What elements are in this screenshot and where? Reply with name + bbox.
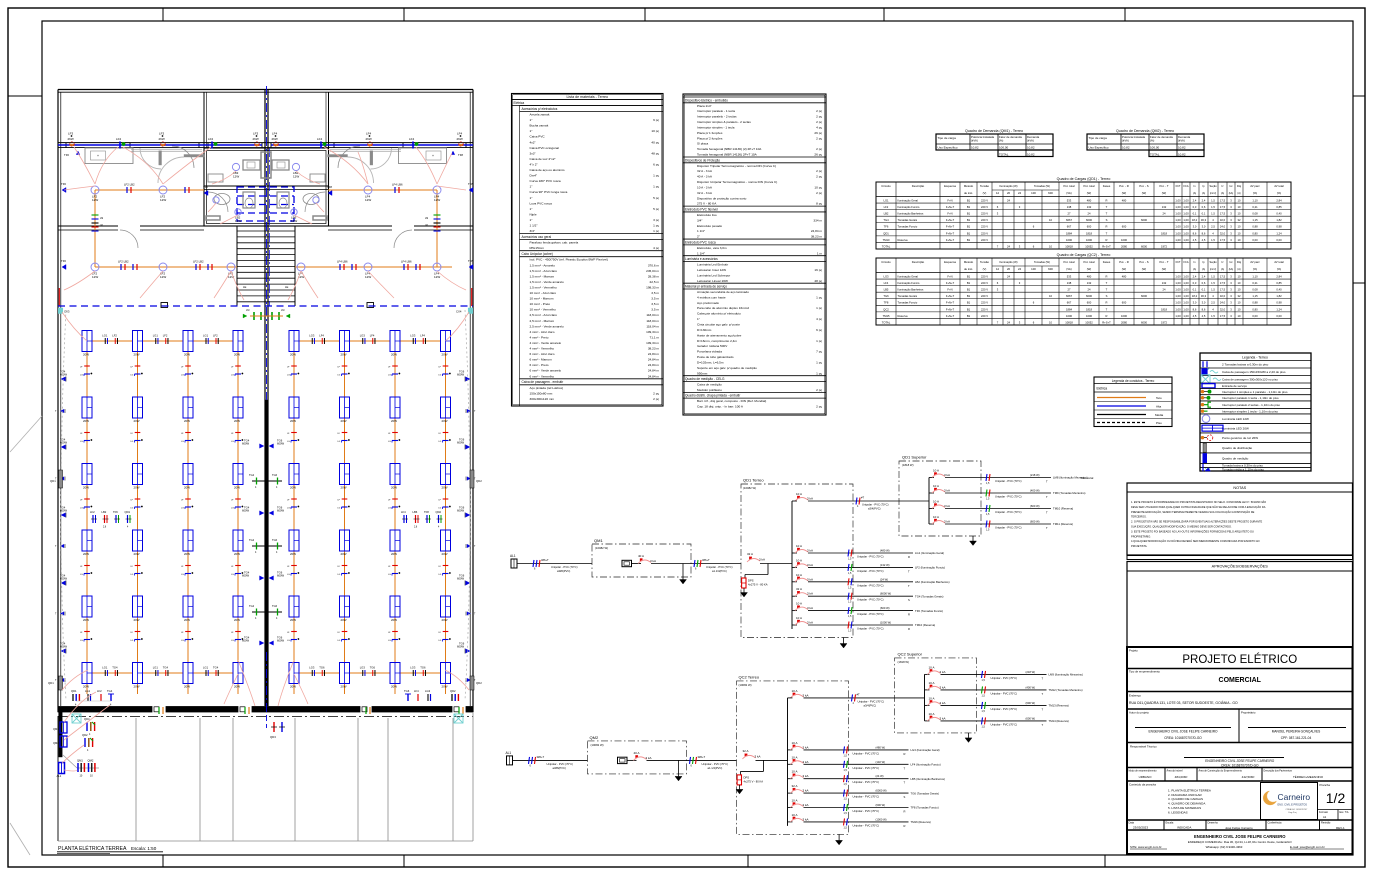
svg-text:1,24: 1,24 <box>1276 231 1282 235</box>
svg-text:LF4: LF4 <box>457 132 463 136</box>
svg-text:26W: 26W <box>366 137 372 141</box>
svg-text:(kA): (kA) <box>1229 192 1234 195</box>
svg-text:Pot. - R: Pot. - R <box>1119 184 1128 188</box>
fluorescent luminaire 20W col1 row3 <box>82 464 92 490</box>
svg-text:20W: 20W <box>83 353 89 357</box>
svg-text:1,00: 1,00 <box>1183 212 1189 216</box>
demand table QM1 <box>936 129 1053 157</box>
legend row: Interruptor simples 1 tecla - 1,10m do piso <box>1200 408 1311 413</box>
svg-text:LF4: LF4 <box>319 334 324 338</box>
svg-text:Unipolar - PVC (70°C): Unipolar - PVC (70°C) <box>853 795 880 799</box>
svg-text:QD1: QD1 <box>48 681 54 685</box>
svg-text:3,5 m: 3,5 m <box>651 302 659 306</box>
svg-text:Unipolar - PVC (70°C): Unipolar - PVC (70°C) <box>991 691 1018 695</box>
svg-text:1,00: 1,00 <box>1183 198 1189 202</box>
svg-text:48 pç: 48 pç <box>651 151 659 155</box>
wall under upper rooms with openings <box>58 226 473 230</box>
svg-text:3 kA: 3 kA <box>807 549 813 553</box>
svg-text:20W: 20W <box>341 353 347 357</box>
svg-text:17,5: 17,5 <box>1220 212 1226 216</box>
svg-text:1000: 1000 <box>1086 238 1092 242</box>
svg-text:LG: LG <box>388 640 391 642</box>
svg-text:3 kA: 3 kA <box>803 803 809 807</box>
central services block walls <box>204 148 329 226</box>
svg-text:Unipolar - PVC (70°C): Unipolar - PVC (70°C) <box>853 766 880 770</box>
svg-text:3 kA: 3 kA <box>944 473 950 477</box>
svg-text:B1: B1 <box>967 314 971 318</box>
svg-text:Unipolar - PVC (70°C): Unipolar - PVC (70°C) <box>702 762 729 766</box>
svg-text:10,82: 10,82 <box>1178 146 1186 150</box>
svg-text:D=130mm: D=130mm <box>697 328 712 332</box>
svg-text:2,5 mm² - Marrom: 2,5 mm² - Marrom <box>530 319 555 323</box>
svg-text:Unipolar - PVC (70°C): Unipolar - PVC (70°C) <box>857 627 884 631</box>
svg-text:0,6: 0,6 <box>1202 281 1206 285</box>
svg-text:LG3: LG3 <box>360 666 366 670</box>
svg-text:(VA): (VA) <box>1066 267 1071 271</box>
board ground <box>840 638 847 649</box>
mezzanine edge jamb boxes <box>161 303 374 308</box>
legend row: 2 Tomadas baixas a 0,30m do piso <box>1200 361 1311 371</box>
meter box QM2 dashed <box>588 735 687 774</box>
svg-text:3,0: 3,0 <box>1193 301 1197 305</box>
svg-text:(600 W): (600 W) <box>1030 504 1040 508</box>
svg-text:600: 600 <box>1048 267 1053 271</box>
svg-text:20W: 20W <box>134 685 140 689</box>
svg-text:TG4: TG4 <box>883 218 889 222</box>
svg-text:600W: 600W <box>457 577 464 581</box>
main breaker 40A QM1 <box>632 554 742 564</box>
svg-text:2080: 2080 <box>1121 244 1127 248</box>
svg-text:Disjuntor Unipolar Termomagnét: Disjuntor Unipolar Termomagnético - norm… <box>697 180 777 184</box>
svg-text:LF2 LB2: LF2 LB2 <box>118 260 129 264</box>
AL1 feeder box <box>57 763 65 779</box>
svg-text:20W: 20W <box>442 618 448 622</box>
svg-text:ENDEREÇO COMERCIAL: Rua 30, Qd: ENDEREÇO COMERCIAL: Rua 30, Qd.34, Lt-18… <box>1188 840 1293 844</box>
svg-text:LG3: LG3 <box>410 334 416 338</box>
svg-text:2 pç: 2 pç <box>816 169 822 173</box>
svg-text:10,82: 10,82 <box>1027 152 1035 156</box>
svg-text:138: 138 <box>1067 281 1072 285</box>
svg-text:3#6+T: 3#6+T <box>541 558 549 562</box>
svg-text:1,00: 1,00 <box>1183 314 1189 318</box>
svg-text:Reserva: Reserva <box>898 314 909 318</box>
svg-text:Pot. total: Pot. total <box>1083 260 1094 264</box>
svg-text:24,84 m: 24,84 m <box>648 352 660 356</box>
svg-text:(W): (W) <box>1087 191 1092 195</box>
svg-text:442,50M²: 442,50M² <box>1242 775 1255 779</box>
material list table: Dispositivo Elétrico - embutido <box>683 94 826 415</box>
svg-text:QD2: QD2 <box>476 479 482 483</box>
svg-text:28,38 m: 28,38 m <box>648 274 660 278</box>
svg-text:LM: LM <box>246 309 249 312</box>
svg-text:Endereço: Endereço <box>1129 694 1141 698</box>
svg-text:B1: B1 <box>967 231 971 235</box>
svg-text:B1: B1 <box>967 288 971 292</box>
svg-text:150x150x80 mm: 150x150x80 mm <box>530 391 553 395</box>
svg-text:0,08: 0,08 <box>1252 212 1258 216</box>
svg-text:LF4: LF4 <box>409 137 415 141</box>
svg-text:600W: 600W <box>60 441 67 445</box>
svg-text:17,5: 17,5 <box>1220 238 1226 242</box>
svg-text:LG: LG <box>439 574 442 576</box>
svg-text:10 mm² - Vermelho: 10 mm² - Vermelho <box>530 308 557 312</box>
svg-text:26W: 26W <box>68 137 74 141</box>
svg-text:Tomadas (W): Tomadas (W) <box>1034 184 1050 188</box>
hall mid-column conductor ticks <box>80 366 92 377</box>
svg-text:23/05/2023: 23/05/2023 <box>1133 826 1148 830</box>
svg-text:LG: LG <box>181 375 184 377</box>
svg-text:Fases: Fases <box>1103 260 1111 264</box>
svg-text:220 V: 220 V <box>981 281 988 285</box>
svg-text:600W: 600W <box>242 639 249 643</box>
svg-text:LG: LG <box>131 574 134 576</box>
svg-text:2080: 2080 <box>1121 320 1127 324</box>
svg-text:8 pç: 8 pç <box>816 202 822 206</box>
svg-text:1,82: 1,82 <box>1276 294 1282 298</box>
svg-text:1 1/4": 1 1/4" <box>697 229 705 233</box>
svg-text:100,00: 100,00 <box>999 146 1009 150</box>
svg-text:533: 533 <box>1067 198 1072 202</box>
svg-text:600W: 600W <box>242 442 249 446</box>
svg-text:LF2: LF2 <box>884 205 889 209</box>
svg-text:Desenho: Desenho <box>1208 821 1219 825</box>
svg-text:Caixa PVC octogonal: Caixa PVC octogonal <box>530 146 560 150</box>
svg-text:Data: Data <box>1129 821 1135 825</box>
svg-text:URBANO: URBANO <box>1139 775 1153 779</box>
svg-text:3 kA: 3 kA <box>646 756 652 760</box>
svg-text:12W: 12W <box>434 198 440 202</box>
svg-text:APROVAÇÕES/OBSERVAÇÕES: APROVAÇÕES/OBSERVAÇÕES <box>1212 564 1269 569</box>
svg-text:1,00: 1,00 <box>1175 198 1181 202</box>
svg-text:1818: 1818 <box>1161 231 1167 235</box>
svg-text:1 m: 1 m <box>817 251 823 255</box>
svg-text:4 pç: 4 pç <box>653 246 659 250</box>
svg-text:(VA): (VA) <box>1066 191 1071 195</box>
wall TF receptacles upper rooms <box>61 182 66 193</box>
svg-text:1,00: 1,00 <box>1183 238 1189 242</box>
svg-text:1": 1" <box>697 317 700 321</box>
fluorescent luminaire 20W col1 row6 <box>82 663 92 689</box>
svg-text:R: R <box>1106 238 1108 242</box>
svg-text:1000: 1000 <box>1121 314 1127 318</box>
svg-text:17,5: 17,5 <box>1220 205 1226 209</box>
svg-text:Iluminação (W): Iluminação (W) <box>999 260 1017 264</box>
board main breaker 32A <box>743 749 788 761</box>
svg-text:Interruptor paralelo - 2 tecla: Interruptor paralelo - 2 teclas <box>697 115 737 119</box>
svg-text:1,00: 1,00 <box>1183 274 1189 278</box>
fluorescent luminaire 20W col6 row1 <box>340 331 350 357</box>
svg-text:(kA): (kA) <box>1229 268 1234 271</box>
svg-text:Método: Método <box>964 184 974 188</box>
svg-text:LP: LP <box>100 225 103 227</box>
svg-text:0,6: 0,6 <box>1202 205 1206 209</box>
svg-text:3 kA: 3 kA <box>803 789 809 793</box>
svg-text:245,04 m: 245,04 m <box>646 269 659 273</box>
svg-text:32,0: 32,0 <box>1220 218 1226 222</box>
svg-text:220 V: 220 V <box>981 274 988 278</box>
branch breaker circuit TF6 <box>792 602 943 619</box>
svg-text:1000: 1000 <box>1121 238 1127 242</box>
svg-text:Pot. - T: Pot. - T <box>1159 260 1168 264</box>
svg-text:R: R <box>904 824 906 828</box>
svg-text:600W: 600W <box>60 577 67 581</box>
svg-text:Quadro de Cargas (QC2) - Terre: Quadro de Cargas (QC2) - Terreo <box>1057 253 1111 257</box>
svg-text:Iluminação Geral: Iluminação Geral <box>898 274 919 278</box>
svg-text:10: 10 <box>1049 218 1052 222</box>
junction box 300x300 cyan left <box>72 714 81 723</box>
svg-text:Material p/ entrada de serviço: Material p/ entrada de serviço <box>685 285 727 289</box>
svg-text:LF2: LF2 <box>208 137 214 141</box>
window gray band right <box>330 149 401 151</box>
svg-text:600W: 600W <box>277 442 284 446</box>
svg-text:24,0: 24,0 <box>1220 301 1226 305</box>
svg-text:24: 24 <box>1088 288 1091 292</box>
svg-text:4x2": 4x2" <box>530 140 536 144</box>
svg-text:1,10: 1,10 <box>1252 274 1258 278</box>
fluorescent luminaire 20W col8 row6 <box>441 663 451 689</box>
svg-text:a3#6(PVC): a3#6(PVC) <box>553 766 566 770</box>
svg-text:5 pç: 5 pç <box>653 196 659 200</box>
svg-text:LG: LG <box>80 375 83 377</box>
svg-text:(10082 W): (10082 W) <box>595 546 608 550</box>
svg-text:26 pç: 26 pç <box>814 153 822 157</box>
svg-text:300x300x120 mm: 300x300x120 mm <box>530 397 555 401</box>
svg-text:Unipolar - PVC (70°C): Unipolar - PVC (70°C) <box>991 722 1018 726</box>
svg-text:1818: 1818 <box>1086 307 1092 311</box>
fluorescent luminaire 20W col5 row6 <box>289 663 299 689</box>
svg-text:118,04 m: 118,04 m <box>646 313 659 317</box>
svg-text:10 mm² - Preto: 10 mm² - Preto <box>530 302 551 306</box>
svg-text:(mm²): (mm²) <box>1210 192 1217 195</box>
svg-text:1": 1" <box>530 129 533 133</box>
svg-text:Prancha: Prancha <box>1320 783 1331 787</box>
svg-text:1": 1" <box>530 196 533 200</box>
svg-text:71,1 m: 71,1 m <box>650 335 660 339</box>
svg-text:1000: 1000 <box>1086 314 1092 318</box>
svg-text:1,00: 1,00 <box>1175 288 1181 292</box>
svg-text:20W: 20W <box>341 552 347 556</box>
svg-text:8,6: 8,6 <box>1193 231 1197 235</box>
svg-text:1,00: 1,00 <box>1175 238 1181 242</box>
svg-text:(1818 W): (1818 W) <box>898 660 910 664</box>
svg-text:TM14 (Reserva): TM14 (Reserva) <box>1049 719 1069 723</box>
upper board feed wire <box>895 697 925 699</box>
svg-text:132: 132 <box>1087 281 1092 285</box>
svg-text:24: 24 <box>1007 244 1010 248</box>
svg-text:LG: LG <box>80 640 83 642</box>
svg-text:2 pç: 2 pç <box>816 120 822 124</box>
svg-text:Tomadas Gerais: Tomadas Gerais <box>898 294 918 298</box>
svg-text:QD2: QD2 <box>82 733 88 737</box>
svg-text:0,00: 0,00 <box>1276 238 1282 242</box>
svg-text:LF2: LF2 <box>97 689 102 693</box>
svg-text:(218 W): (218 W) <box>1026 670 1036 674</box>
svg-text:1 pç: 1 pç <box>816 306 822 310</box>
svg-text:24,84 m: 24,84 m <box>648 369 660 373</box>
svg-text:Área de Construção do Empreend: Área de Construção do Empreendimento <box>1199 770 1243 773</box>
svg-text:Eletroduto PVC rosca: Eletroduto PVC rosca <box>685 240 716 244</box>
svg-text:TM15: TM15 <box>883 314 890 318</box>
svg-text:LG: LG <box>287 441 290 443</box>
fluorescent luminaire 20W col2 row5 <box>133 596 143 622</box>
svg-text:LG: LG <box>181 441 184 443</box>
notes box <box>1127 483 1353 555</box>
upper-right room door and column <box>328 148 392 183</box>
svg-text:600W: 600W <box>457 441 464 445</box>
svg-text:8,6: 8,6 <box>1202 307 1206 311</box>
svg-text:Interruptor simples - 1 tecla: Interruptor simples - 1 tecla <box>697 125 735 129</box>
svg-text:Luminária LED 12W: Luminária LED 12W <box>1222 417 1249 421</box>
svg-text:Esc. T/A: Esc. T/A <box>1340 811 1349 814</box>
svg-text:1 pç: 1 pç <box>653 174 659 178</box>
svg-text:32: 32 <box>1238 294 1241 298</box>
svg-text:1,5: 1,5 <box>1211 288 1215 292</box>
svg-text:1,5: 1,5 <box>1211 314 1215 318</box>
branch breaker circuit LF4 <box>788 755 941 772</box>
svg-text:TG4: TG4 <box>249 538 255 542</box>
plan title label <box>57 845 163 854</box>
svg-text:B1: B1 <box>967 218 971 222</box>
entry QD2 cluster below wall <box>82 733 93 752</box>
svg-text:Quadro de medição: Quadro de medição <box>1222 456 1249 460</box>
svg-text:LG1 (Iluminação Geral): LG1 (Iluminação Geral) <box>915 551 944 555</box>
title block sheet content row <box>1127 783 1353 821</box>
svg-text:3 kA: 3 kA <box>803 774 809 778</box>
svg-text:TM16 (Reserva): TM16 (Reserva) <box>911 820 931 824</box>
svg-text:10: 10 <box>1238 288 1241 292</box>
svg-text:12: 12 <box>996 267 1000 271</box>
svg-text:Disj: Disj <box>1237 185 1242 188</box>
QD1 wall cabinet symbol <box>50 470 63 488</box>
svg-text:3x3": 3x3" <box>530 151 536 155</box>
svg-text:Disjuntor Tripolar Termomagnét: Disjuntor Tripolar Termomagnético - norm… <box>697 164 776 168</box>
svg-text:20W: 20W <box>234 618 240 622</box>
svg-text:1818: 1818 <box>1161 307 1167 311</box>
svg-text:0,85: 0,85 <box>1276 205 1282 209</box>
svg-text:INDICADA: INDICADA <box>1177 826 1191 830</box>
svg-text:Alta: Alta <box>1156 405 1162 409</box>
svg-text:20W: 20W <box>83 618 89 622</box>
demand table QM2 <box>1087 129 1204 157</box>
svg-text:Tomada média a 1,10m do piso: Tomada média a 1,10m do piso <box>1222 468 1264 472</box>
svg-text:533: 533 <box>1067 274 1072 278</box>
svg-text:600W: 600W <box>277 509 284 513</box>
svg-text:12W: 12W <box>365 198 371 202</box>
svg-text:Niple: Niple <box>530 212 537 216</box>
svg-text:220 V: 220 V <box>981 198 988 202</box>
svg-text:10: 10 <box>1049 294 1052 298</box>
svg-text:Teto: Teto <box>1156 396 1162 400</box>
svg-text:600: 600 <box>1087 225 1092 229</box>
svg-text:LG3: LG3 <box>425 689 431 693</box>
svg-text:LG: LG <box>439 508 442 510</box>
svg-text:10: 10 <box>1238 307 1241 311</box>
svg-text:Tomadas Funcio: Tomadas Funcio <box>898 301 918 305</box>
svg-text:LG: LG <box>231 441 234 443</box>
svg-text:Dispositivo de proteção contra: Dispositivo de proteção contra surto <box>697 196 747 200</box>
svg-text:LB2: LB2 <box>884 212 889 216</box>
svg-text:32: 32 <box>1238 218 1241 222</box>
svg-text:Esquema: Esquema <box>944 184 956 188</box>
svg-text:1,00: 1,00 <box>1183 231 1189 235</box>
svg-text:10 A: 10 A <box>796 544 802 548</box>
svg-text:Caixa de passagem 150x150x80 a: Caixa de passagem 150x150x80 a 2,20 do p… <box>1222 370 1286 374</box>
svg-text:132: 132 <box>1162 281 1167 285</box>
fluorescent luminaire 20W col2 row6 <box>133 663 143 689</box>
fluorescent luminaire 20W col2 row1 <box>133 331 143 357</box>
svg-text:1,00: 1,00 <box>1175 231 1181 235</box>
svg-text:Bucha zamak: Bucha zamak <box>530 124 549 128</box>
svg-text:Esquema: Esquema <box>944 260 956 264</box>
svg-text:600W: 600W <box>457 509 464 513</box>
svg-text:20W: 20W <box>391 685 397 689</box>
svg-text:TF8: TF8 <box>884 301 889 305</box>
svg-text:Pot. - R: Pot. - R <box>1119 260 1128 264</box>
svg-text:LF4 LB6: LF4 LB6 <box>401 260 412 264</box>
svg-text:B1: B1 <box>967 212 971 216</box>
svg-text:2": 2" <box>697 235 700 239</box>
svg-text:32,0: 32,0 <box>1220 307 1226 311</box>
svg-text:(V): (V) <box>983 267 987 271</box>
svg-text:José Felipe Carneiro: José Felipe Carneiro <box>1225 826 1253 830</box>
svg-text:TF8: TF8 <box>468 259 473 263</box>
svg-text:2,4: 2,4 <box>1202 274 1206 278</box>
svg-text:TG6: TG6 <box>420 666 426 670</box>
svg-text:LF2: LF2 <box>163 334 168 338</box>
svg-text:Descrição: Descrição <box>912 260 925 264</box>
svg-text:48 pç: 48 pç <box>814 279 822 283</box>
svg-text:(W): (W) <box>1122 267 1127 271</box>
svg-text:3 kA: 3 kA <box>944 520 950 524</box>
svg-text:20W: 20W <box>234 353 240 357</box>
svg-text:3,5 m: 3,5 m <box>651 308 659 312</box>
svg-text:Uso Específico: Uso Específico <box>938 146 958 150</box>
svg-text:667: 667 <box>1067 225 1072 229</box>
svg-text:Pot. - S: Pot. - S <box>1139 184 1148 188</box>
svg-text:S: S <box>908 598 910 602</box>
svg-text:600: 600 <box>1122 301 1127 305</box>
svg-text:TG4: TG4 <box>163 666 169 670</box>
wall below top strip <box>58 143 473 148</box>
feeder node AL1 (QM1) <box>510 554 517 568</box>
svg-text:10052: 10052 <box>1085 320 1093 324</box>
svg-text:Pot. - S: Pot. - S <box>1139 260 1148 264</box>
svg-text:17,5: 17,5 <box>1220 281 1226 285</box>
svg-text:100: 100 <box>1031 191 1036 195</box>
svg-text:10 A: 10 A <box>933 469 939 473</box>
svg-text:18,2: 18,2 <box>1192 218 1198 222</box>
svg-text:6667: 6667 <box>1066 218 1072 222</box>
svg-text:4 mm² - Preto: 4 mm² - Preto <box>530 335 549 339</box>
svg-text:Quadro de Demanda (QM2) - Terr: Quadro de Demanda (QM2) - Terreo <box>1116 129 1174 133</box>
svg-text:8,6: 8,6 <box>1202 231 1206 235</box>
hall luminaire circuit columns <box>87 341 446 694</box>
svg-text:LF4 LB6: LF4 LB6 <box>337 260 348 264</box>
upper board QD1 Superior dashed box <box>899 455 981 537</box>
svg-text:Iluminação Funcio: Iluminação Funcio <box>898 205 920 209</box>
svg-text:Unipolar - PVC (70°C): Unipolar - PVC (70°C) <box>857 598 884 602</box>
svg-text:a1.1/4(PVC): a1.1/4(PVC) <box>712 569 727 573</box>
svg-text:2 pç: 2 pç <box>816 191 822 195</box>
svg-text:4x275 V - 80 KA: 4x275 V - 80 KA <box>744 779 764 783</box>
svg-text:1,5: 1,5 <box>1211 205 1215 209</box>
fluorescent luminaire 20W col4 row2 <box>233 397 243 423</box>
svg-text:LG1: LG1 <box>102 334 108 338</box>
svg-text:Circuito: Circuito <box>881 260 891 264</box>
svg-text:10: 10 <box>1238 314 1241 318</box>
svg-text:(mm²): (mm²) <box>1210 268 1217 271</box>
entry feed salmon arcs <box>62 692 110 771</box>
